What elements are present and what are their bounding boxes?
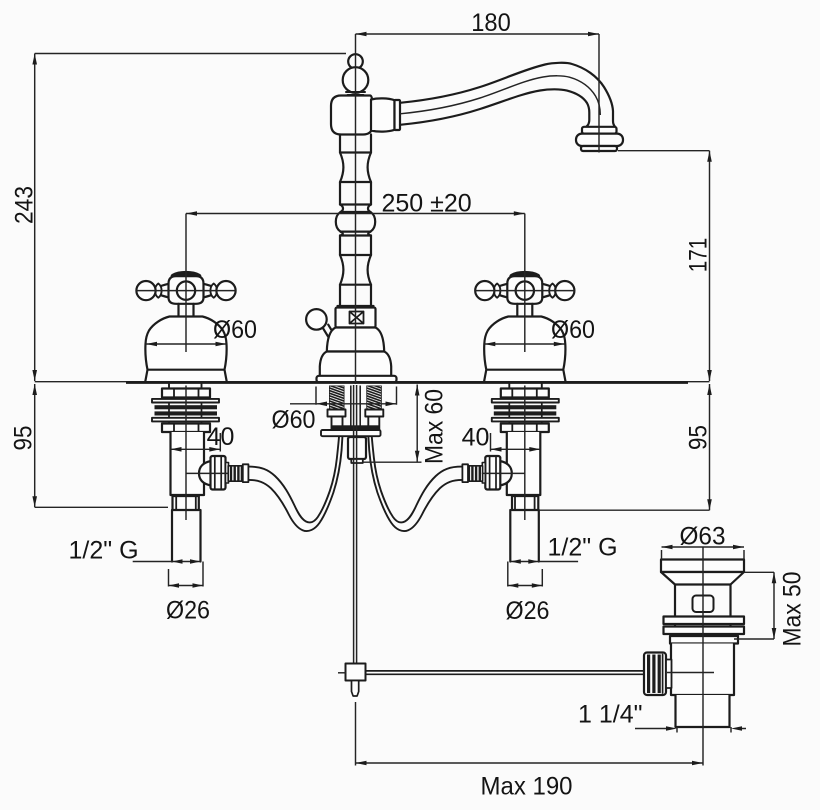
column section C [340, 182, 371, 205]
valve body [171, 432, 205, 495]
finial ball small [348, 54, 363, 69]
waste taper [661, 572, 744, 585]
pop-up lever arm [323, 325, 338, 343]
svg-text:95: 95 [10, 426, 38, 451]
coupling nut [173, 496, 199, 510]
waste tailpiece [676, 695, 730, 727]
dim 95 right [539, 384, 713, 510]
left stud collar [328, 410, 346, 417]
column section A [340, 135, 371, 153]
base skirt tier [320, 352, 391, 377]
waste square hole [693, 596, 714, 613]
locknut tip [351, 459, 363, 463]
dim 243 left [11, 54, 347, 382]
column barrel [336, 212, 375, 232]
dim Ø63 [662, 522, 745, 559]
dim line 40 [171, 433, 221, 452]
svg-text:Ø60: Ø60 [272, 406, 316, 434]
waste washer 2 [664, 627, 745, 635]
left disc [155, 284, 162, 298]
dim 250 +-20 [186, 189, 525, 217]
rod through nut [354, 437, 357, 463]
handle centerline horizontal [136, 290, 236, 292]
hose collar [243, 464, 249, 482]
clamp block [346, 664, 366, 681]
right threaded stud [366, 386, 382, 410]
svg-text:Max 50: Max 50 [779, 572, 807, 647]
svg-text:Ø60: Ø60 [551, 316, 595, 344]
finial ball large [343, 67, 369, 93]
column ring lower [340, 232, 371, 236]
pin below clamp [352, 681, 359, 697]
left threaded stud [329, 386, 345, 410]
waste washer 1 [664, 617, 745, 625]
horizontal pop-up rod [366, 671, 645, 674]
svg-text:Ø26: Ø26 [506, 597, 550, 625]
base foot band [317, 376, 397, 382]
outlet dome [199, 461, 211, 486]
outlet hex nut [211, 456, 226, 490]
dim line Ø60 across bell [146, 343, 227, 345]
pop-up waste assembly [644, 560, 744, 728]
threaded tail 1/2G [172, 510, 201, 562]
outlet ring 1 [582, 127, 617, 134]
waste flange [661, 560, 744, 573]
stem lines through stack [169, 403, 202, 424]
svg-text:1/2" G: 1/2" G [548, 534, 618, 562]
outlet centerline [186, 472, 229, 474]
handle center circle [177, 281, 195, 299]
X index box [350, 312, 364, 324]
svg-text:180: 180 [471, 9, 511, 37]
svg-text:Max 190: Max 190 [481, 773, 573, 801]
waste centerline vertical [702, 548, 704, 728]
svg-text:171: 171 [685, 238, 713, 273]
washer stack [152, 399, 219, 403]
mounting bracket [321, 430, 381, 436]
flexible hose [249, 434, 339, 523]
spout tube bottom wall [400, 89, 589, 126]
svg-text:243: 243 [11, 186, 39, 224]
center locknut [348, 437, 366, 459]
left handle + valve unit [133, 214, 343, 588]
right disc [210, 284, 217, 298]
tee side arm [371, 98, 395, 131]
right stud tube [368, 417, 379, 431]
waste centerline horizontal [667, 672, 714, 674]
dim Max 60 [363, 385, 449, 465]
column section B waist [340, 153, 371, 183]
dim Max 50 [734, 572, 807, 647]
svg-text:250 ±20: 250 ±20 [382, 189, 472, 217]
dim 1 1/4 [578, 701, 746, 733]
spout column assembly [306, 54, 623, 382]
below-deck hex nut 1 [162, 389, 210, 398]
dim leader 1/2G with tube arrows [133, 561, 201, 563]
dark clamp plate [332, 425, 379, 429]
dim Ø60 center base [272, 387, 397, 435]
dim 180 top [356, 9, 600, 152]
center below-deck assembly [321, 382, 644, 697]
pop-up rod [354, 385, 357, 663]
dim Max 190 [356, 702, 704, 801]
right neck [204, 284, 214, 298]
left ball [136, 281, 155, 300]
tee body [331, 96, 373, 135]
spout tube top wall [400, 63, 615, 127]
handle bell [145, 317, 227, 383]
valve stem lines above nut [169, 384, 202, 389]
svg-text:95: 95 [685, 425, 713, 450]
column ring upper [340, 205, 371, 213]
waste lower body [671, 644, 734, 696]
waste washer 3 [670, 636, 738, 644]
svg-text:1/2" G: 1/2" G [69, 537, 139, 565]
svg-text:Ø60: Ø60 [213, 316, 257, 344]
handle stem [179, 304, 194, 316]
rod knob ribbed [644, 653, 666, 696]
right ball [216, 281, 235, 300]
outlet transition [226, 463, 229, 484]
deck mounting surface [35, 381, 710, 383]
clamp left tick [338, 672, 346, 674]
left neck [159, 284, 169, 298]
collar under balls [346, 92, 365, 95]
outlet ring 2 bulge [576, 134, 623, 146]
right stud collar [365, 410, 383, 417]
dim Ø26 [169, 562, 204, 587]
svg-text:Ø26: Ø26 [166, 596, 210, 624]
left stud tube [332, 417, 343, 431]
column centerline [355, 34, 357, 384]
handle cap dark [174, 274, 199, 277]
dim 95 left [10, 384, 169, 507]
column section F waist [340, 255, 371, 285]
handle body [169, 276, 204, 304]
knob collar [666, 660, 672, 689]
handle centerline vertical [185, 214, 187, 353]
outlet ring 3 [581, 146, 617, 151]
right handle + valve unit (mirrored) [368, 214, 578, 588]
waste upper body [675, 585, 731, 644]
svg-text:40: 40 [462, 424, 490, 452]
column section E [340, 236, 371, 256]
center tube lines [351, 386, 360, 426]
base dome tier [327, 328, 384, 352]
dim 171 right [618, 151, 713, 381]
base block [336, 308, 376, 328]
svg-text:40: 40 [207, 423, 235, 451]
base collar line [338, 305, 374, 307]
below-deck hex nut 2 [162, 424, 210, 433]
spout tube centerline [400, 76, 600, 115]
pop-up lever ball [306, 309, 327, 330]
svg-text:1 1/4": 1 1/4" [578, 701, 642, 729]
svg-text:Max 60: Max 60 [421, 389, 449, 464]
ribbed adapter [228, 466, 243, 481]
svg-text:Ø63: Ø63 [680, 522, 726, 550]
column section G [340, 285, 371, 306]
arm flange [395, 100, 401, 130]
